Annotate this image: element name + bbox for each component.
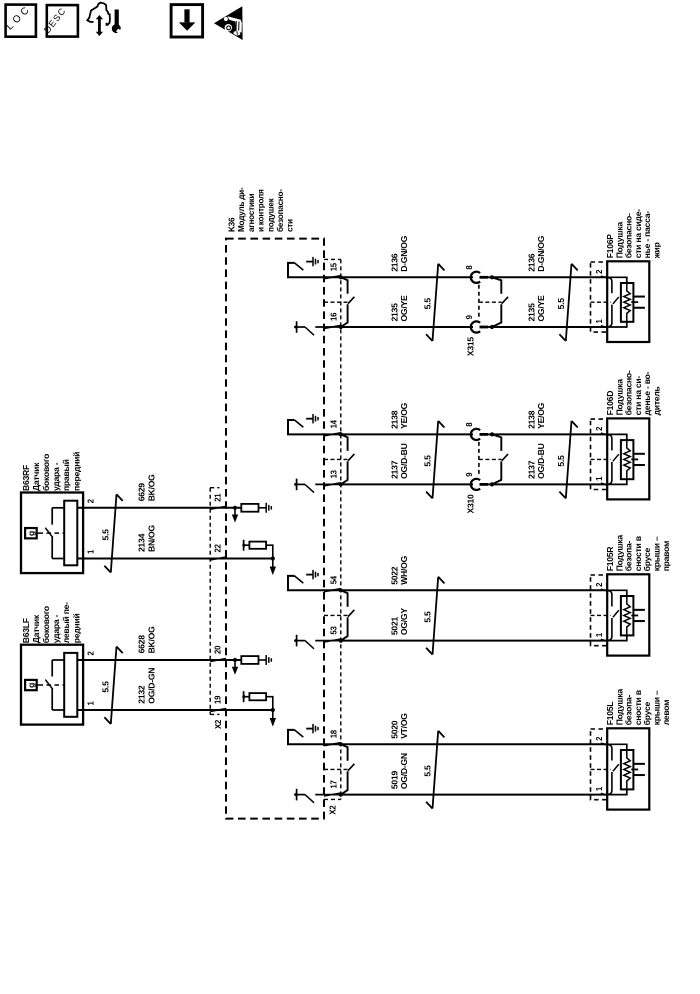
airbag F106D box (591, 418, 650, 499)
svg-text:OG/D-BU: OG/D-BU (399, 443, 409, 479)
svg-text:дитель: дитель (652, 386, 662, 415)
side impact sensor B63RF box (21, 493, 83, 574)
svg-text:19: 19 (213, 695, 222, 704)
pin 15 of K36 (324, 262, 341, 278)
airbag F106D label (605, 370, 662, 415)
svg-text:14: 14 (329, 419, 338, 428)
K36 internal: ground switch (pin 14) (288, 414, 341, 434)
pin 16 of K36 (324, 312, 341, 328)
svg-text:OG/YE: OG/YE (536, 295, 546, 321)
label 2135 OG/YE (390, 295, 409, 321)
svg-text:5.5: 5.5 (101, 681, 111, 693)
wire 2136 D-GN/OG (module to X315) (341, 276, 473, 278)
svg-text:YE/OG: YE/OG (399, 402, 409, 429)
K36 internal: deploy contact (pin 16) (294, 321, 341, 335)
inline connector X315 pin 8 (471, 272, 488, 283)
svg-text:6628: 6628 (137, 635, 147, 654)
svg-text:5.5: 5.5 (101, 529, 111, 541)
linkage dash (X310) (479, 458, 502, 460)
svg-text:D-GN/OG: D-GN/OG (399, 235, 409, 272)
shorting bar X2 (pins 54/53) (339, 588, 355, 643)
svg-text:2134: 2134 (137, 533, 147, 552)
cable slash (B63RF pair) (104, 494, 122, 572)
wire 5020 VT/OG (341, 743, 607, 745)
label 2137 OG/D-BU (2) (527, 443, 546, 479)
svg-text:X310: X310 (465, 494, 475, 514)
label 5019 OG/D-GN (390, 753, 409, 789)
squib of F106P (288, 277, 671, 809)
svg-text:агностики: агностики (247, 194, 256, 232)
sensor B63LF label (21, 602, 82, 643)
svg-text:жир: жир (652, 242, 662, 259)
label 5021 OG/GY (390, 608, 409, 635)
svg-text:Датчик: Датчик (31, 614, 41, 643)
module K36 label (228, 187, 295, 232)
svg-text:BK/OG: BK/OG (147, 626, 157, 653)
svg-text:Модуль ди-: Модуль ди- (237, 187, 246, 232)
svg-text:OG/GY: OG/GY (399, 608, 409, 635)
cable slash 1 (F106D pair) (426, 421, 444, 499)
pin 17 of K36 (324, 780, 341, 796)
airbag F105L label (605, 689, 671, 726)
linkage dash (X2 pins 15/16) (324, 301, 348, 303)
K36 internal: pull-down resistor & ground (pin 20) (232, 655, 271, 675)
airbag F105R box (591, 574, 650, 655)
pin 18 of K36 (324, 729, 341, 745)
connector X2 line (left, pins 21/22/20/19) (210, 488, 219, 715)
icon down-arrow button (171, 5, 203, 37)
label 2138 YE/OG (2) (527, 402, 546, 429)
svg-text:5.5: 5.5 (422, 455, 432, 467)
icon vehicle with up/down arrows and wrench (87, 3, 124, 37)
K36 internal: ground switch (pin 18) (288, 724, 341, 744)
svg-text:2132: 2132 (137, 685, 147, 704)
svg-text:22: 22 (213, 543, 222, 552)
linkage dash (X2 pins 18/17) (324, 768, 348, 770)
pin 21 of K36 (210, 493, 226, 509)
svg-text:OG/D-GN: OG/D-GN (399, 753, 409, 789)
label 6628 BK/OG (137, 626, 157, 653)
cable slash (B63LF pair) (104, 647, 122, 725)
svg-text:18: 18 (329, 729, 338, 738)
svg-text:g: g (26, 683, 36, 688)
side impact sensor B63LF box (21, 645, 83, 725)
shorting bar X2 (pins 14/13) (339, 432, 355, 486)
linkage dash (X2 pins 14/13) (324, 458, 348, 460)
wire 2135 OG/YE (X315 to F106P) (488, 326, 607, 328)
label 2135 OG/YE (2) (527, 295, 546, 321)
pin 19 of K36 (210, 695, 226, 711)
connector X2 line (right, pins 15..17) (324, 259, 341, 799)
svg-text:VT/OG: VT/OG (399, 713, 409, 739)
svg-text:20: 20 (213, 645, 222, 654)
svg-text:и контроля: и контроля (257, 189, 266, 232)
svg-text:сти: сти (286, 219, 295, 232)
wire 2137 OG/D-BU (module to X310) (341, 483, 473, 485)
K36 internal: deploy contact (pin 17) (294, 789, 341, 803)
wire 2132 OG/D-GN (77, 709, 272, 711)
cable slash 2 (F106D pair) (559, 421, 577, 499)
svg-text:левом: левом (661, 700, 671, 726)
svg-text:редний: редний (71, 613, 81, 643)
cable slash 2 (F106P pair) (559, 264, 577, 341)
svg-text:13: 13 (329, 469, 338, 478)
label 6629 BK/OG (137, 474, 157, 501)
svg-text:6629: 6629 (137, 483, 147, 502)
svg-text:54: 54 (329, 575, 338, 584)
svg-text:X2: X2 (329, 805, 338, 815)
shorting bar X2 (pins 18/17) (339, 742, 355, 797)
K36 internal: deploy contact (pin 53) (294, 635, 341, 649)
svg-text:правом: правом (661, 541, 671, 571)
label 5020 VT/OG (390, 713, 409, 739)
inline connector X310 pin 9 (471, 479, 488, 490)
X310 connector dashed line (478, 442, 480, 477)
svg-text:15: 15 (329, 262, 338, 271)
svg-text:безопасно-: безопасно- (275, 189, 285, 232)
icon DESC button (42, 5, 78, 36)
svg-text:бокового: бокового (41, 454, 51, 491)
svg-text:5.5: 5.5 (422, 611, 432, 623)
airbag F105R label (605, 535, 671, 572)
airbag F105L box (591, 728, 650, 809)
label 5022 WH/OG (390, 555, 409, 584)
label 2138 YE/OG (390, 402, 409, 429)
wire 5022 WH/OG (341, 589, 607, 591)
label 2132 OG/D-GN (137, 668, 157, 704)
label 2136 D-GN/OG (2) (527, 235, 546, 272)
pin 54 of K36 (324, 575, 341, 591)
pin 53 of K36 (324, 626, 341, 642)
X315 connector dashed line (478, 285, 480, 320)
icon LOC button (4, 3, 36, 37)
label 2136 D-GN/OG (390, 235, 409, 272)
wire 5019 OG/D-GN (341, 794, 607, 796)
airbag F106P box (591, 261, 650, 342)
linkage dash (X2 pins 54/53) (324, 614, 348, 616)
linkage dash (X315) (479, 301, 502, 303)
squib of F105R (288, 590, 671, 809)
inline connector X315 pin 9 (471, 321, 488, 332)
wire 2136 D-GN/OG (X315 to F106P) (488, 276, 607, 278)
K36 internal: deploy contact (pin 13) (294, 479, 341, 493)
svg-text:16: 16 (329, 312, 338, 321)
label 2137 OG/D-BU (390, 443, 409, 479)
svg-text:подушек: подушек (266, 197, 275, 232)
svg-text:B63LF: B63LF (21, 618, 31, 643)
svg-text:B63RF: B63RF (21, 465, 31, 491)
K36 internal: ground switch (pin 15) (288, 257, 341, 277)
wire 2137 OG/D-BU (X310 to F106D) (488, 483, 607, 485)
cable slash 1 (F106P pair) (426, 264, 444, 341)
svg-text:BN/OG: BN/OG (147, 525, 157, 552)
wire 6628 BK/OG (77, 659, 241, 661)
inline connector X310 pin 8 (471, 429, 488, 440)
svg-text:5.5: 5.5 (422, 765, 432, 777)
svg-text:D-GN/OG: D-GN/OG (536, 235, 546, 272)
pin 13 of K36 (324, 469, 341, 485)
svg-text:левый пе-: левый пе- (61, 602, 71, 643)
pin 22 of K36 (210, 543, 226, 559)
sensor B63RF label (21, 452, 82, 491)
cable slash 1 (F105R pair) (426, 577, 444, 655)
shorting bar X2 (pins 15/16) (339, 275, 355, 329)
svg-text:OG/D-BU: OG/D-BU (536, 443, 546, 479)
wire 2138 YE/OG (module to X310) (341, 433, 473, 435)
svg-text:X315: X315 (465, 337, 475, 357)
shorting bar X310 (490, 432, 508, 486)
svg-text:удара -: удара - (51, 614, 61, 643)
svg-text:21: 21 (213, 493, 222, 502)
svg-text:OG/D-GN: OG/D-GN (147, 668, 157, 704)
svg-text:Датчик: Датчик (31, 462, 41, 491)
svg-text:удара -: удара - (51, 462, 61, 491)
svg-text:5.5: 5.5 (556, 298, 566, 310)
wire 2134 BN/OG (77, 558, 272, 560)
svg-text:YE/OG: YE/OG (536, 402, 546, 429)
svg-text:OG/YE: OG/YE (399, 295, 409, 321)
svg-text:бокового: бокового (41, 606, 51, 643)
wire 2135 OG/YE (module to X315) (341, 326, 473, 328)
K36 internal: pull-down resistor & ground (pin 21) (232, 503, 271, 523)
icon SIR airbag warning triangle (214, 6, 243, 40)
K36 internal: ground switch (pin 54) (288, 570, 341, 590)
svg-text:WH/OG: WH/OG (399, 555, 409, 584)
svg-text:g: g (26, 531, 36, 536)
svg-text:правый: правый (61, 459, 71, 491)
airbag F106P label (605, 209, 662, 260)
svg-text:BK/OG: BK/OG (147, 474, 157, 501)
svg-text:53: 53 (329, 626, 338, 635)
svg-text:K36: K36 (228, 217, 237, 232)
cable slash 1 (F105L pair) (426, 731, 444, 809)
svg-text:17: 17 (329, 780, 338, 788)
module K36 dashed box (226, 239, 324, 819)
wire 5021 OG/GY (341, 640, 607, 642)
wire 6629 BK/OG (77, 507, 241, 509)
wire 2138 YE/OG (X310 to F106D) (488, 433, 607, 435)
svg-text:X2: X2 (214, 719, 223, 729)
K36 internal: bias source & resistor (pin 22) (242, 540, 276, 575)
squib of F105L (607, 744, 645, 794)
label 2134 BN/OG (137, 525, 157, 552)
pin 20 of K36 (210, 645, 226, 661)
pin 14 of K36 (324, 419, 341, 435)
svg-text:передний: передний (71, 452, 81, 491)
svg-text:5.5: 5.5 (422, 298, 432, 310)
shorting bar X315 (490, 275, 508, 329)
K36 internal: bias source & resistor (pin 19) (242, 691, 276, 726)
squib of F106D (288, 434, 671, 809)
svg-text:5.5: 5.5 (556, 455, 566, 467)
